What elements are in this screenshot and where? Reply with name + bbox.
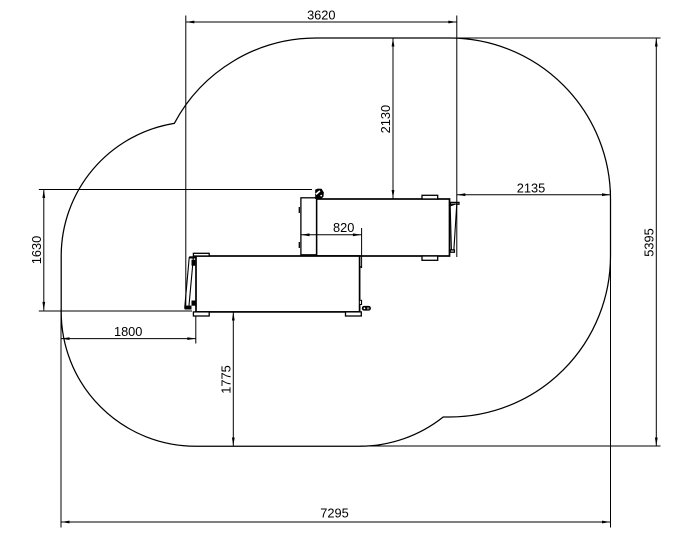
svg-text:1800: 1800 bbox=[114, 324, 142, 339]
svg-text:820: 820 bbox=[333, 220, 354, 235]
svg-text:2135: 2135 bbox=[517, 180, 545, 195]
svg-text:1630: 1630 bbox=[29, 236, 44, 264]
svg-text:1775: 1775 bbox=[218, 365, 233, 393]
svg-text:7295: 7295 bbox=[320, 506, 348, 521]
svg-text:2130: 2130 bbox=[378, 105, 393, 133]
svg-text:5395: 5395 bbox=[642, 228, 657, 256]
svg-text:3620: 3620 bbox=[307, 8, 335, 23]
